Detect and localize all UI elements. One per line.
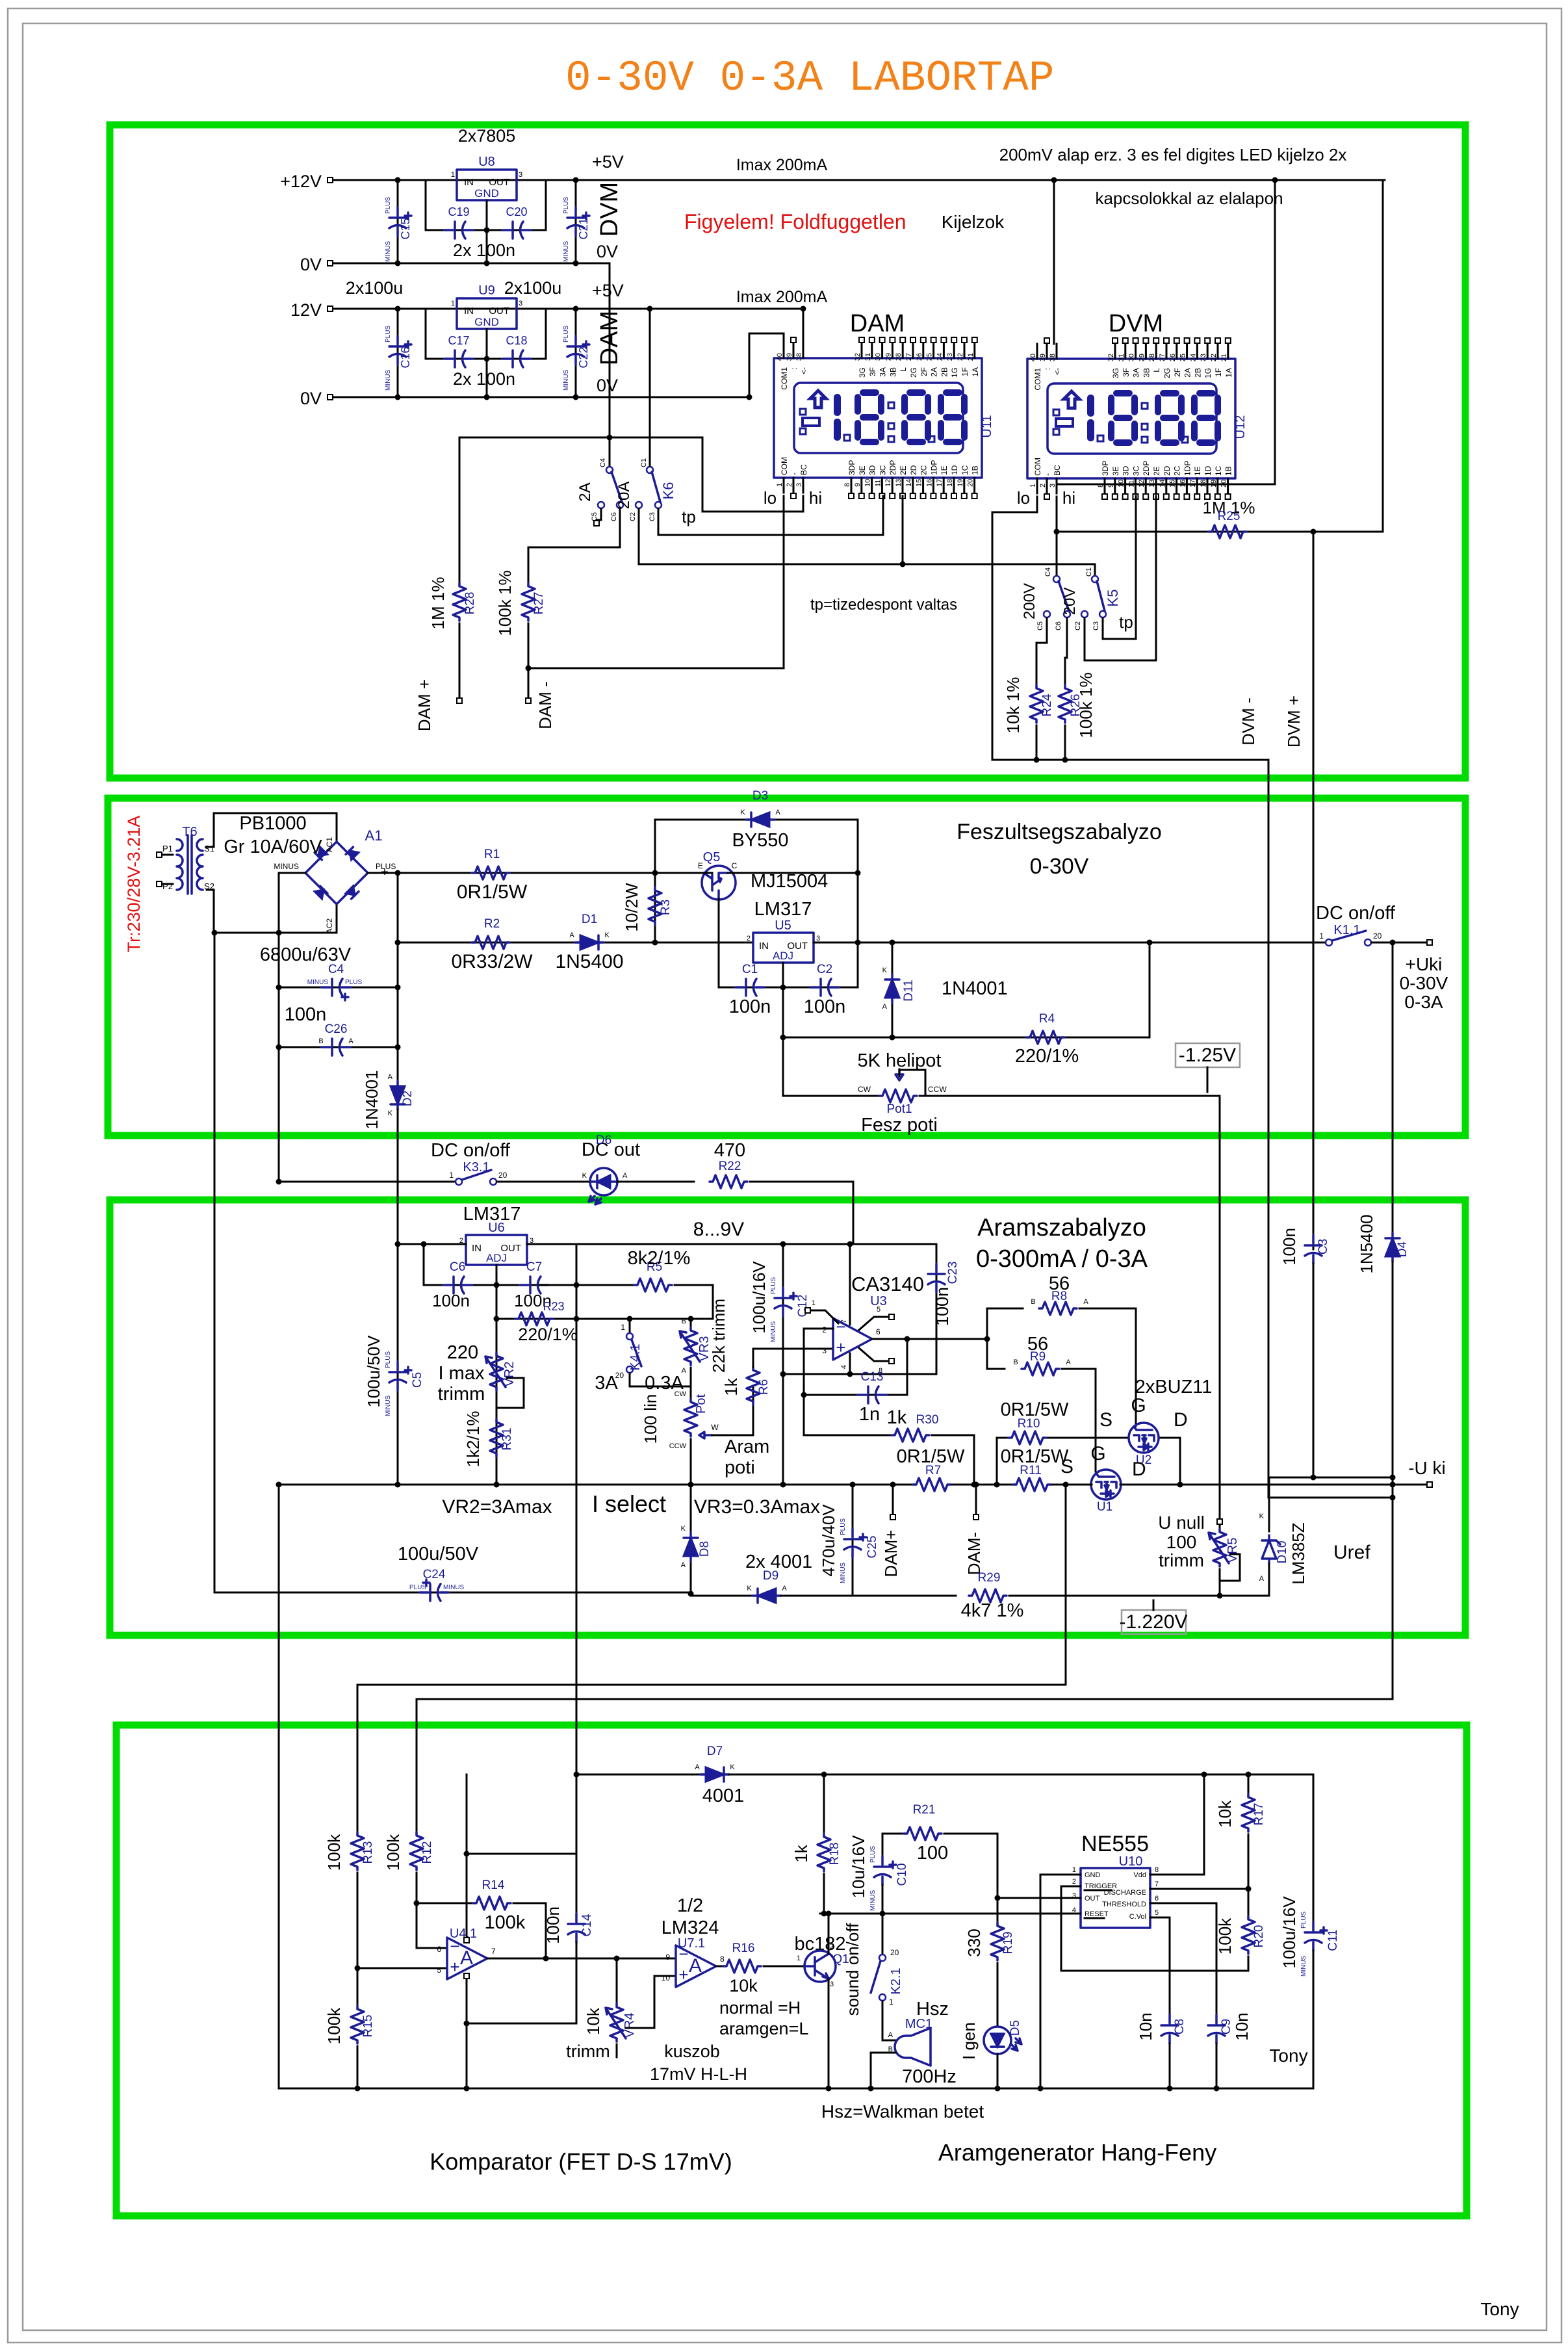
svg-text:DVM -: DVM - — [1239, 697, 1258, 746]
svg-text:3: 3 — [822, 1346, 827, 1355]
resistor R2 — [472, 936, 509, 949]
svg-text:3DP: 3DP — [847, 460, 856, 475]
capacitor C15 — [397, 180, 399, 263]
regulator U8 7805 — [457, 170, 517, 200]
wire K4.1/VR3 loop — [630, 1368, 691, 1386]
svg-text:2: 2 — [1039, 484, 1047, 487]
svg-text:Tr:230/28V-3.21A: Tr:230/28V-3.21A — [124, 816, 144, 953]
svg-text:3F: 3F — [868, 367, 877, 376]
svg-text:R10: R10 — [1018, 1417, 1040, 1431]
wire R1 line — [398, 872, 704, 874]
svg-text:C22: C22 — [577, 346, 590, 368]
svg-text:R12: R12 — [420, 1841, 434, 1864]
svg-text:5: 5 — [1155, 1909, 1159, 1917]
wire U6 out to 8-9V rail — [527, 1243, 936, 1245]
wire junctions — [395, 1482, 401, 1488]
wire line A from -Uki to R13 — [357, 1485, 1066, 1832]
svg-text:8...9V: 8...9V — [693, 1219, 744, 1240]
svg-text:200V: 200V — [1021, 583, 1038, 619]
svg-text:2x 100n: 2x 100n — [453, 240, 515, 260]
svg-text:D4: D4 — [1396, 1241, 1409, 1257]
potentiometer Pot1 fesz poti — [783, 1095, 879, 1097]
wire DVM lo rail — [992, 759, 1268, 761]
wire R5 to R23 line — [675, 1285, 713, 1319]
diode D10 LM385Z zener — [1268, 1498, 1270, 1531]
wire R27 bottom to DAM- terminal and lo line — [528, 623, 530, 697]
green box: current regulator — [110, 1200, 1465, 1635]
wire DVM BC to R25 node — [1056, 497, 1058, 532]
svg-text:2xBUZ11: 2xBUZ11 — [1135, 1377, 1213, 1397]
svg-text:Gr 10A/60V: Gr 10A/60V — [224, 837, 322, 857]
svg-text:C10: C10 — [895, 1864, 909, 1886]
wire 555 DISCHARGE pin7 — [1150, 1888, 1248, 1890]
wire left column to rail — [278, 1485, 280, 2088]
wire S2 down to AC2 line — [207, 890, 214, 933]
wire DAM pin38 to +5V row2 — [803, 309, 804, 343]
svg-text:5: 5 — [437, 1966, 441, 1975]
svg-text:PB1000: PB1000 — [239, 813, 306, 834]
wire K6 C5 spare stub — [597, 509, 601, 520]
wire 0V rail row2 — [333, 396, 749, 398]
svg-text:RESET: RESET — [1085, 1910, 1109, 1918]
svg-text:U10: U10 — [1119, 1854, 1143, 1869]
svg-text:CW: CW — [675, 1390, 687, 1398]
capacitor C5 100u/50V — [396, 1362, 399, 1370]
wire D7 to Vdd rail — [729, 1774, 1313, 1776]
wire 555 GND pin1 — [1040, 1875, 1081, 2088]
svg-text:6800u/63V: 6800u/63V — [260, 944, 352, 965]
svg-text:Vdd: Vdd — [1133, 1871, 1146, 1879]
wire R26 bottom — [1064, 725, 1066, 760]
svg-text:1A: 1A — [971, 367, 980, 377]
svg-text:2x100u: 2x100u — [346, 278, 404, 298]
svg-text:+12V: +12V — [280, 172, 322, 191]
label -1.25V — [1176, 1043, 1240, 1067]
svg-text:1: 1 — [451, 300, 455, 307]
svg-text:1: 1 — [797, 1955, 801, 1962]
wire C17/C18 loop — [426, 309, 546, 359]
svg-text:0V: 0V — [300, 255, 322, 274]
svg-text:lo: lo — [1017, 488, 1030, 508]
resistor R21 100 — [904, 1827, 942, 1840]
svg-text:24: 24 — [1189, 354, 1197, 361]
svg-text:1C: 1C — [1214, 465, 1223, 476]
wire output to C13 — [906, 1339, 908, 1395]
wire AC2 line — [214, 904, 337, 933]
svg-text:12: 12 — [884, 479, 892, 487]
wire 555 OUT pin3 — [997, 1897, 1081, 1899]
svg-text:220/1%: 220/1% — [1015, 1046, 1079, 1067]
svg-text:A: A — [388, 1073, 393, 1081]
svg-text:trimm: trimm — [566, 2042, 610, 2061]
svg-text:3C: 3C — [1131, 465, 1140, 476]
svg-text:U11: U11 — [980, 415, 994, 437]
svg-text:3: 3 — [519, 300, 522, 307]
switch K4.1 — [629, 1319, 631, 1332]
svg-text:100u/50V: 100u/50V — [398, 1544, 479, 1565]
resistor R24 — [1030, 685, 1043, 723]
wire +5V drop right — [1057, 180, 1275, 489]
wire bridge plus to R1 line — [368, 872, 398, 874]
svg-text:R11: R11 — [1020, 1464, 1041, 1477]
diode D3 BY550 — [655, 820, 858, 873]
svg-text:MINUS: MINUS — [443, 1584, 465, 1591]
capacitor C4 6800u/63V — [279, 987, 398, 989]
svg-text:100: 100 — [1166, 1532, 1197, 1552]
resistor R13 100k — [351, 1832, 364, 1870]
svg-text:D2: D2 — [401, 1091, 415, 1106]
svg-text:2E: 2E — [899, 465, 908, 475]
resistor R19 330 — [997, 1902, 999, 1923]
svg-text:2A: 2A — [576, 482, 594, 501]
svg-text:2DP: 2DP — [1142, 461, 1151, 476]
svg-text:32: 32 — [854, 353, 862, 361]
svg-text:200mV alap erz. 3 es fel digit: 200mV alap erz. 3 es fel digites LED kij… — [999, 145, 1347, 164]
svg-text:CCW: CCW — [669, 1442, 687, 1450]
svg-text:1: 1 — [889, 1997, 893, 2007]
svg-text:1n: 1n — [859, 1404, 880, 1425]
svg-text:2: 2 — [1072, 1878, 1076, 1886]
wire R28 bottom to DAM+ terminal — [459, 623, 461, 697]
svg-text:R16: R16 — [732, 1942, 755, 1955]
svg-text:2: 2 — [786, 483, 793, 487]
svg-text:A: A — [689, 1955, 702, 1977]
svg-text:15: 15 — [916, 479, 923, 487]
svg-text:R20: R20 — [1252, 1925, 1266, 1948]
svg-text:R19: R19 — [1001, 1932, 1015, 1955]
svg-text:K: K — [730, 1763, 735, 1771]
svg-text:P1: P1 — [162, 844, 173, 853]
capacitor C18 — [502, 357, 511, 360]
regulator U9 7805 — [457, 298, 517, 329]
svg-text:tp: tp — [682, 507, 696, 526]
svg-text:100k: 100k — [324, 2007, 344, 2044]
wire junctions — [395, 177, 401, 183]
wire U4.1 output line — [487, 1958, 676, 1960]
svg-text:U7.1: U7.1 — [678, 1936, 705, 1951]
wire R25 to +5V rail — [1383, 180, 1385, 532]
svg-text:K5: K5 — [1105, 590, 1121, 607]
svg-text:1: 1 — [449, 1171, 454, 1180]
wire +12V rail — [333, 179, 1385, 181]
wire R14 node — [417, 1903, 473, 1904]
svg-text:I max: I max — [439, 1363, 485, 1384]
display U12 — [1027, 359, 1248, 478]
svg-text:Fesz poti: Fesz poti — [861, 1115, 938, 1136]
svg-text:MINUS: MINUS — [385, 369, 392, 391]
svg-text:1D: 1D — [950, 465, 959, 475]
svg-text:+5V: +5V — [592, 281, 624, 300]
svg-text:hi: hi — [809, 488, 822, 508]
svg-text:3B: 3B — [888, 367, 897, 377]
svg-text:26: 26 — [916, 353, 923, 361]
wire U6 in line — [398, 1243, 466, 1245]
capacitor C23 100n — [936, 1244, 938, 1374]
svg-text:LM324: LM324 — [662, 1917, 719, 1938]
capacitor C9 10n — [1208, 2015, 1225, 2044]
svg-text:A: A — [460, 1947, 473, 1969]
diode D8 — [684, 1533, 698, 1561]
wire DVM+ column lower — [1313, 1264, 1315, 1477]
svg-text:VR4: VR4 — [623, 2013, 637, 2038]
svg-text:2B: 2B — [940, 367, 949, 377]
svg-text:L: L — [1152, 368, 1161, 372]
wire VR2 wiper loop — [496, 1378, 524, 1408]
svg-text:2: 2 — [822, 1325, 827, 1334]
svg-text:20A: 20A — [615, 482, 633, 510]
wire DVM pin38 from +5V row1 — [1053, 180, 1055, 344]
wire adj line — [783, 942, 1150, 1037]
wire pin4 V- line — [783, 1373, 936, 1375]
svg-text:25: 25 — [926, 353, 934, 361]
svg-text:23: 23 — [946, 353, 954, 361]
svg-text:PLUS: PLUS — [840, 1518, 847, 1535]
wire U9 gnd — [486, 329, 488, 397]
wire C19/C20 loop — [426, 180, 546, 230]
svg-text:trimm: trimm — [438, 1384, 485, 1405]
wire DVM+ drop — [1313, 532, 1315, 1249]
wire K3.1 to LED D6 — [497, 1181, 590, 1183]
svg-text:A: A — [775, 809, 780, 816]
svg-text:17mV H-L-H: 17mV H-L-H — [650, 2064, 747, 2084]
svg-text:DISCHARGE: DISCHARGE — [1104, 1889, 1146, 1897]
svg-text:C6: C6 — [450, 1260, 465, 1274]
svg-text:31: 31 — [1118, 354, 1125, 361]
svg-text:MINUS: MINUS — [385, 240, 392, 262]
svg-text:28: 28 — [895, 353, 903, 361]
svg-text:2DP: 2DP — [888, 460, 897, 475]
svg-text:C21: C21 — [577, 218, 590, 239]
svg-text:Tony: Tony — [1269, 2046, 1307, 2066]
svg-text:1D: 1D — [1203, 465, 1213, 476]
svg-text:R17: R17 — [1252, 1803, 1266, 1826]
svg-text:7: 7 — [840, 1319, 848, 1323]
wire VR4 wiper to U7.1 + — [626, 1976, 676, 2028]
switch K6 — [607, 435, 613, 441]
svg-text:K2.1: K2.1 — [889, 1968, 903, 1994]
svg-text:700Hz: 700Hz — [902, 2066, 957, 2087]
svg-text:VR3=0.3Amax: VR3=0.3Amax — [694, 1496, 820, 1518]
svg-text:A: A — [682, 1367, 687, 1375]
svg-text:-: - — [790, 473, 799, 475]
svg-text:PLUS: PLUS — [409, 1584, 426, 1591]
svg-text:-1.25V: -1.25V — [1179, 1045, 1236, 1066]
wire R16 to Q1 base — [764, 1966, 804, 1968]
svg-text:T6: T6 — [182, 825, 197, 839]
svg-text:30: 30 — [1128, 354, 1136, 361]
svg-text:B: B — [682, 1318, 686, 1325]
svg-text:1M 1%: 1M 1% — [428, 577, 448, 630]
svg-text:R22: R22 — [719, 1160, 741, 1173]
resistor R25 — [1209, 525, 1246, 538]
svg-text:C19: C19 — [448, 205, 469, 218]
svg-text:32: 32 — [1107, 354, 1115, 361]
wire R9 to U1 gate — [1062, 1369, 1096, 1472]
svg-text:C12: C12 — [796, 1295, 810, 1318]
wire 555 TRIGGER pin2 — [1061, 1886, 1248, 1971]
svg-text:A: A — [1083, 1298, 1088, 1306]
svg-text:U6: U6 — [488, 1221, 505, 1235]
svg-text:R24: R24 — [1040, 694, 1054, 716]
svg-text:DAM+: DAM+ — [881, 1530, 901, 1578]
svg-text:3: 3 — [795, 483, 803, 487]
svg-text:THRESHOLD: THRESHOLD — [1102, 1901, 1146, 1908]
svg-text:3: 3 — [519, 171, 522, 179]
svg-text:3A: 3A — [1132, 368, 1141, 378]
svg-text:3: 3 — [816, 935, 820, 942]
svg-text:1G: 1G — [950, 367, 959, 378]
svg-text:10/2W: 10/2W — [622, 883, 641, 932]
svg-text:PLUS: PLUS — [770, 1277, 777, 1294]
svg-text:K6: K6 — [660, 482, 676, 500]
wire lower right rail — [1269, 1497, 1393, 1499]
resistor R8 56 — [987, 1308, 1023, 1310]
mosfet U1 — [1091, 1470, 1121, 1500]
wire K1.1 out to +Uki — [1372, 942, 1426, 944]
capacitor C22 — [575, 309, 577, 397]
trimmer VR5 U null — [1217, 1519, 1222, 1524]
svg-text:U9: U9 — [478, 283, 495, 298]
capacitor C13 1n — [804, 1394, 907, 1396]
svg-text:Figyelem! Foldfuggetlen: Figyelem! Foldfuggetlen — [684, 210, 906, 233]
capacitor C11 100u/16V — [1313, 1774, 1315, 1922]
svg-text:22: 22 — [1210, 354, 1218, 361]
wire 555 RESET pin4 — [882, 1913, 1081, 1915]
svg-text:IN: IN — [472, 1243, 482, 1254]
svg-text:29: 29 — [884, 353, 892, 361]
svg-text:poti: poti — [725, 1457, 755, 1478]
svg-text:PLUS: PLUS — [869, 1846, 877, 1863]
svg-text:6: 6 — [1155, 1895, 1159, 1903]
svg-text:1F: 1F — [1214, 368, 1223, 377]
capacitor C6 — [424, 1244, 496, 1285]
svg-text:100n: 100n — [1279, 1228, 1299, 1266]
wire U7.1 output to R16 — [716, 1966, 723, 1968]
wire opamp pin8 stub — [859, 1348, 888, 1361]
svg-text:10u/16V: 10u/16V — [849, 1835, 868, 1899]
svg-text:I select: I select — [592, 1490, 666, 1517]
svg-text:CCW: CCW — [928, 1085, 947, 1094]
svg-text:C1: C1 — [742, 963, 758, 976]
resistor R26 — [1059, 685, 1072, 723]
svg-text:1B: 1B — [971, 465, 980, 475]
svg-text:D10: D10 — [1276, 1541, 1289, 1564]
svg-text:4k7 1%: 4k7 1% — [961, 1600, 1024, 1621]
svg-text:Pot1: Pot1 — [886, 1102, 912, 1116]
svg-text:MINUS: MINUS — [385, 1395, 392, 1416]
svg-text:1DP: 1DP — [929, 460, 938, 475]
svg-text:PLUS: PLUS — [563, 326, 570, 343]
resistor R11 0R1/5W — [1013, 1478, 1051, 1491]
svg-text:100k: 100k — [324, 1834, 344, 1871]
wire Q1 emitter to rail — [828, 1979, 830, 2088]
wire + input — [357, 1968, 447, 1969]
wire bridge minus column — [279, 873, 305, 1180]
wire U2 source line from R10 — [1047, 1437, 1129, 1439]
svg-text:2x 4001: 2x 4001 — [745, 1552, 812, 1572]
svg-text:3F: 3F — [1122, 368, 1131, 377]
svg-text:Tony: Tony — [1480, 2299, 1519, 2319]
svg-text:2A: 2A — [1183, 368, 1192, 378]
svg-text:8: 8 — [1155, 1866, 1159, 1874]
svg-text:C5: C5 — [411, 1372, 424, 1388]
diode D2 1N4001 — [391, 1081, 405, 1110]
svg-text:AC1: AC1 — [325, 837, 334, 853]
wire D5 to rail — [997, 2054, 999, 2088]
svg-text::: : — [1043, 368, 1052, 370]
svg-text:R28: R28 — [463, 592, 477, 615]
wire opamp - input — [804, 1329, 833, 1435]
svg-text:A: A — [348, 1037, 353, 1045]
svg-text:5K helipot: 5K helipot — [858, 1050, 942, 1071]
svg-text:100u/50V: 100u/50V — [364, 1335, 383, 1408]
svg-text:Imax 200mA: Imax 200mA — [736, 288, 828, 306]
svg-text:Kijelzok: Kijelzok — [942, 212, 1005, 232]
svg-text:27: 27 — [905, 353, 913, 361]
svg-text:ADJ: ADJ — [773, 950, 793, 962]
svg-text:K: K — [582, 1172, 587, 1180]
wire K5 C6 to R26 — [1065, 618, 1067, 687]
svg-text:R29: R29 — [978, 1571, 1001, 1585]
capacitor C8 10n — [1161, 2015, 1178, 2044]
wire poti wiper to R6 — [712, 1435, 753, 1436]
svg-text:20: 20 — [1373, 931, 1382, 941]
svg-text:R3: R3 — [659, 900, 673, 915]
wire C24 line — [214, 933, 691, 1592]
svg-text:8k2/1%: 8k2/1% — [628, 1248, 691, 1269]
svg-text:Feszultsegszabalyzo: Feszultsegszabalyzo — [957, 820, 1162, 844]
svg-text:R26: R26 — [1069, 694, 1083, 717]
wire R18 bottom / RESET line — [823, 1874, 825, 1914]
svg-text:K: K — [882, 967, 888, 974]
svg-text:1k: 1k — [721, 1377, 741, 1396]
svg-text:21: 21 — [967, 353, 975, 361]
svg-text:CW: CW — [858, 1085, 871, 1094]
svg-text:PLUS: PLUS — [385, 326, 392, 343]
svg-text:20: 20 — [967, 479, 975, 487]
svg-text:K: K — [747, 1585, 752, 1592]
svg-text:17: 17 — [936, 479, 944, 487]
svg-text:Aram: Aram — [725, 1436, 769, 1457]
potentiometer Aram poti 100 lin — [690, 1386, 692, 1399]
svg-text:1E: 1E — [940, 465, 949, 475]
svg-text:12V: 12V — [290, 300, 322, 320]
wire 12V rail — [333, 308, 803, 310]
resistor R16 10k — [723, 1960, 761, 1973]
svg-text:MINUS: MINUS — [869, 1890, 877, 1911]
svg-text:2A: 2A — [930, 367, 939, 377]
svg-text:8: 8 — [843, 483, 851, 487]
svg-text:0V: 0V — [300, 389, 322, 408]
svg-text:7: 7 — [491, 1947, 496, 1956]
svg-text:1: 1 — [812, 1299, 816, 1307]
svg-text:C15: C15 — [399, 218, 412, 239]
resistor R1 — [472, 866, 509, 879]
wire K5 C2 to DVM pin 2E — [1085, 496, 1156, 660]
svg-text:4: 4 — [840, 1365, 848, 1369]
capacitor C1 — [719, 987, 858, 989]
svg-text:D9: D9 — [763, 1569, 778, 1583]
svg-text:VR2: VR2 — [502, 1362, 517, 1387]
svg-text:3D: 3D — [1122, 465, 1131, 476]
svg-text:LM317: LM317 — [754, 899, 812, 920]
svg-text:K: K — [604, 931, 610, 939]
wire 555 Vdd pin8 — [1150, 1774, 1204, 1875]
svg-text:A: A — [623, 1172, 628, 1180]
wire S1 to bridge AC1 — [207, 813, 337, 847]
wire bottom rail — [279, 2088, 1313, 2090]
svg-text:2D: 2D — [909, 465, 918, 475]
